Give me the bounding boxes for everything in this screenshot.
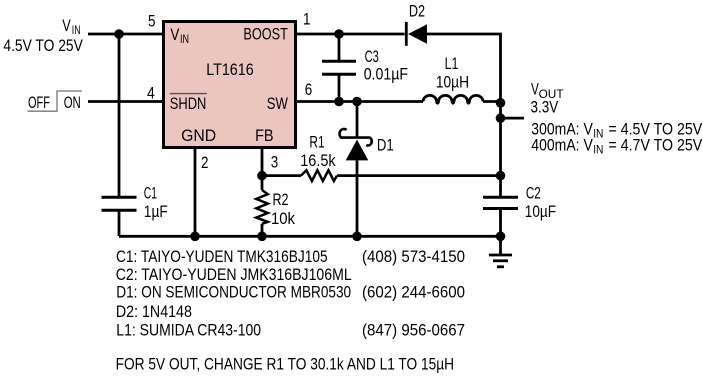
svg-text:0.01µF: 0.01µF (364, 64, 408, 83)
svg-text:(847) 956-0667: (847) 956-0667 (362, 321, 465, 340)
node SW / D1 junction (352, 97, 362, 107)
svg-text:IN: IN (593, 126, 603, 140)
capacitor C2 (483, 197, 518, 236)
wire pin 6 SW to L1 (296, 100, 424, 103)
svg-text:1µF: 1µF (144, 202, 168, 221)
svg-text:4.5V TO 25V: 4.5V TO 25V (3, 36, 83, 55)
wire bottom ground rail (119, 235, 500, 238)
svg-text:BOOST: BOOST (243, 24, 288, 43)
note L1 part (116, 321, 465, 340)
node C2 rail junction (496, 232, 506, 242)
svg-text:3.3V: 3.3V (531, 98, 559, 117)
svg-text:OFF: OFF (28, 93, 50, 112)
svg-text:C1: C1 (144, 183, 157, 202)
node GND rail junction (190, 232, 200, 242)
svg-text:GND: GND (181, 126, 216, 145)
svg-text:10k: 10k (271, 209, 295, 228)
svg-text:D1: D1 (377, 135, 394, 154)
IC U1 LT1616 regulator body (164, 22, 296, 148)
note D1 part (116, 283, 465, 302)
resistor R2 10k (256, 176, 268, 237)
inductor L1 (423, 95, 483, 103)
label C2 10uF (525, 183, 556, 220)
svg-text:SW: SW (267, 94, 288, 113)
wire pin 1 BOOST to top rail (296, 33, 405, 36)
svg-text:FOR 5V OUT, CHANGE R1 TO 30.1k: FOR 5V OUT, CHANGE R1 TO 30.1k AND L1 TO… (116, 355, 455, 374)
label VOUT 3.3V and ratings (531, 79, 703, 156)
svg-text:10µF: 10µF (525, 202, 556, 221)
wire pin 3 FB down to divider node (261, 148, 264, 176)
svg-text:1: 1 (303, 10, 311, 29)
wire pin 2 GND down to rail (194, 148, 197, 237)
wire C1 bottom to ground rail (118, 210, 121, 236)
svg-text:V: V (62, 16, 71, 35)
svg-text:C2: C2 (526, 183, 541, 202)
svg-text:D2: D2 (409, 1, 425, 20)
wire VIN input to pin 5 (88, 33, 164, 36)
svg-text:R2: R2 (273, 190, 289, 209)
resistor R1 16.5k (262, 170, 500, 181)
wire SHDN input to pin 4 (88, 100, 164, 103)
label C1 1uF (144, 183, 168, 220)
svg-text:3: 3 (271, 153, 279, 172)
svg-text:IN: IN (180, 32, 189, 46)
node BOOST / C3 junction (334, 29, 344, 39)
wire VOUT stub to label (501, 117, 525, 120)
note C1 part (116, 247, 465, 266)
svg-text:ON: ON (64, 93, 81, 112)
svg-text:R1: R1 (309, 133, 324, 152)
wire L1 to VOUT node (483, 100, 501, 103)
svg-text:D1: ON SEMICONDUCTOR MBR0530: D1: ON SEMICONDUCTOR MBR0530 (116, 283, 351, 302)
wire VOUT vertical down to C2 (499, 102, 502, 198)
svg-text:L1: SUMIDA CR43-100: L1: SUMIDA CR43-100 (116, 321, 261, 340)
node VOUT stub junction (496, 113, 506, 123)
svg-text:L1: L1 (445, 54, 459, 73)
node R1 feedback junction (496, 171, 506, 181)
node VIN junction (114, 29, 124, 39)
svg-text:5: 5 (148, 12, 156, 31)
label C3 0.01uF (364, 47, 408, 84)
svg-text:IN: IN (593, 143, 603, 157)
svg-text:= 4.7V TO 25V: = 4.7V TO 25V (609, 136, 703, 155)
node FB divider junction (257, 171, 267, 181)
label L1 10uH (436, 54, 469, 92)
svg-text:C1: TAIYO-YUDEN TMK316BJ105: C1: TAIYO-YUDEN TMK316BJ105 (116, 247, 328, 266)
svg-text:4: 4 (147, 84, 155, 103)
svg-text:SHDN: SHDN (170, 94, 207, 113)
diode D1 MBR0530 schottky (340, 102, 372, 237)
svg-text:400mA: V: 400mA: V (531, 136, 593, 155)
svg-text:2: 2 (201, 153, 209, 172)
svg-text:6: 6 (305, 80, 313, 99)
svg-text:10µH: 10µH (436, 73, 469, 92)
svg-text:C3: C3 (365, 47, 379, 66)
ground (489, 236, 512, 266)
label VIN input (62, 16, 80, 37)
label R2 10k (271, 190, 295, 228)
label R1 16.5k (300, 133, 336, 171)
svg-text:D2: 1N4148: D2: 1N4148 (116, 302, 192, 321)
switch waveform OFF/ON (28, 91, 83, 112)
capacitor C3 (322, 34, 356, 102)
svg-text:C2: TAIYO-YUDEN JMK316BJ106ML: C2: TAIYO-YUDEN JMK316BJ106ML (116, 265, 352, 284)
pin label SHDN with overline (170, 94, 207, 113)
capacitor C1 (102, 197, 137, 210)
pin label VIN (170, 25, 189, 46)
svg-text:V: V (170, 25, 180, 44)
svg-text:(408) 573-4150: (408) 573-4150 (362, 247, 465, 266)
svg-text:16.5k: 16.5k (300, 151, 336, 170)
svg-text:FB: FB (255, 126, 274, 145)
node R2 rail junction (257, 232, 267, 242)
diode D2 1N4148 (406, 22, 427, 46)
wire VIN junction down to C1 (118, 34, 121, 197)
svg-text:(602) 244-6600: (602) 244-6600 (362, 283, 465, 302)
node D1 rail junction (352, 232, 362, 242)
svg-text:LT1616: LT1616 (206, 60, 254, 79)
wire D2 to right corner and down to VOUT node (427, 34, 501, 103)
node VOUT junction (496, 98, 506, 108)
node SW / C3 junction (334, 97, 344, 107)
